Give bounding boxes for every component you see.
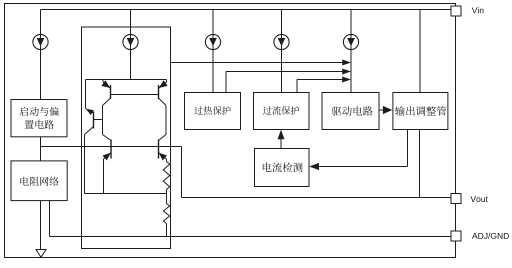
wire — [281, 10, 283, 93]
wire Q4 emitter drop — [103, 159, 105, 194]
wire — [350, 10, 352, 93]
arrowhead — [342, 77, 351, 83]
terminal Vout — [451, 194, 461, 204]
wire R1-R2 node — [166, 190, 168, 204]
transistor Q5 — [159, 135, 168, 161]
arrowhead — [278, 130, 285, 139]
current source I2 — [123, 34, 138, 49]
wire Vin rail — [41, 9, 452, 11]
wire Q2 collector drop — [165, 106, 167, 135]
block 电流检测 current sense — [255, 149, 310, 187]
wire current-limit to drive — [296, 80, 298, 93]
block 驱动电路 drive circuit — [322, 93, 379, 130]
transistor Q2 — [159, 80, 168, 106]
wire drive to pass element — [379, 109, 384, 111]
wire R2 bottom to ADJ line — [166, 224, 168, 237]
wire error amp output to drive — [171, 62, 344, 64]
wire node N1 vertical — [102, 106, 104, 135]
wire Q3 emitter drop — [85, 80, 87, 109]
wire Vout net — [182, 197, 452, 199]
wire B1-B2 connector — [40, 137, 42, 161]
transistor Q4 — [102, 135, 111, 161]
wire B2 to ADJ line — [49, 201, 51, 237]
wire to ground — [40, 201, 42, 250]
resistor R2 — [163, 204, 169, 224]
pin label Vout — [470, 196, 487, 202]
wire Q3 collector drop — [84, 135, 86, 194]
pin label ADJ/GND — [472, 233, 509, 239]
arrowhead — [342, 60, 351, 66]
block 输出调整管 output pass transistor — [393, 93, 448, 130]
current source I4 — [274, 34, 289, 49]
block 电阻网络 resistor network — [11, 161, 67, 201]
arrowhead — [342, 69, 351, 75]
current source I3 — [205, 34, 220, 49]
ground — [36, 250, 46, 258]
terminal ADJ/GND — [451, 231, 461, 241]
current source I1 — [33, 34, 48, 49]
wire Vin to pass element — [419, 10, 421, 93]
wire current sense to over-current block — [280, 137, 282, 149]
wire — [130, 10, 132, 80]
current source I5 — [343, 34, 358, 49]
block 过热保护 thermal protection — [185, 93, 241, 130]
pin label Vin — [472, 7, 484, 13]
wire tap from Q3/Q4 to resistor node — [85, 193, 167, 195]
wire emitter rail — [86, 79, 167, 81]
arrowhead into current sense — [309, 163, 319, 170]
wire ADJ/GND net — [50, 236, 452, 238]
block 过流保护 over-current protection — [254, 93, 310, 130]
terminal Vin — [451, 6, 461, 16]
transistor Q1 — [101, 80, 110, 106]
block 启动与偏置电路 startup & bias — [11, 100, 67, 137]
wire W1 bias feed — [41, 146, 182, 148]
transistor Q3 — [85, 109, 94, 135]
wire — [212, 10, 214, 93]
wire pass element to Vout — [419, 130, 421, 198]
resistor R1 — [166, 159, 168, 162]
wire base rail Q1-Q2 — [111, 94, 159, 96]
wire — [40, 10, 42, 100]
inner rectangle around error amplifier core — [82, 27, 171, 249]
wire pass element to current sense — [407, 130, 409, 167]
arrowhead — [383, 106, 392, 114]
wire Q3 base to node — [94, 119, 103, 121]
wire thermal protect to drive — [225, 72, 227, 93]
